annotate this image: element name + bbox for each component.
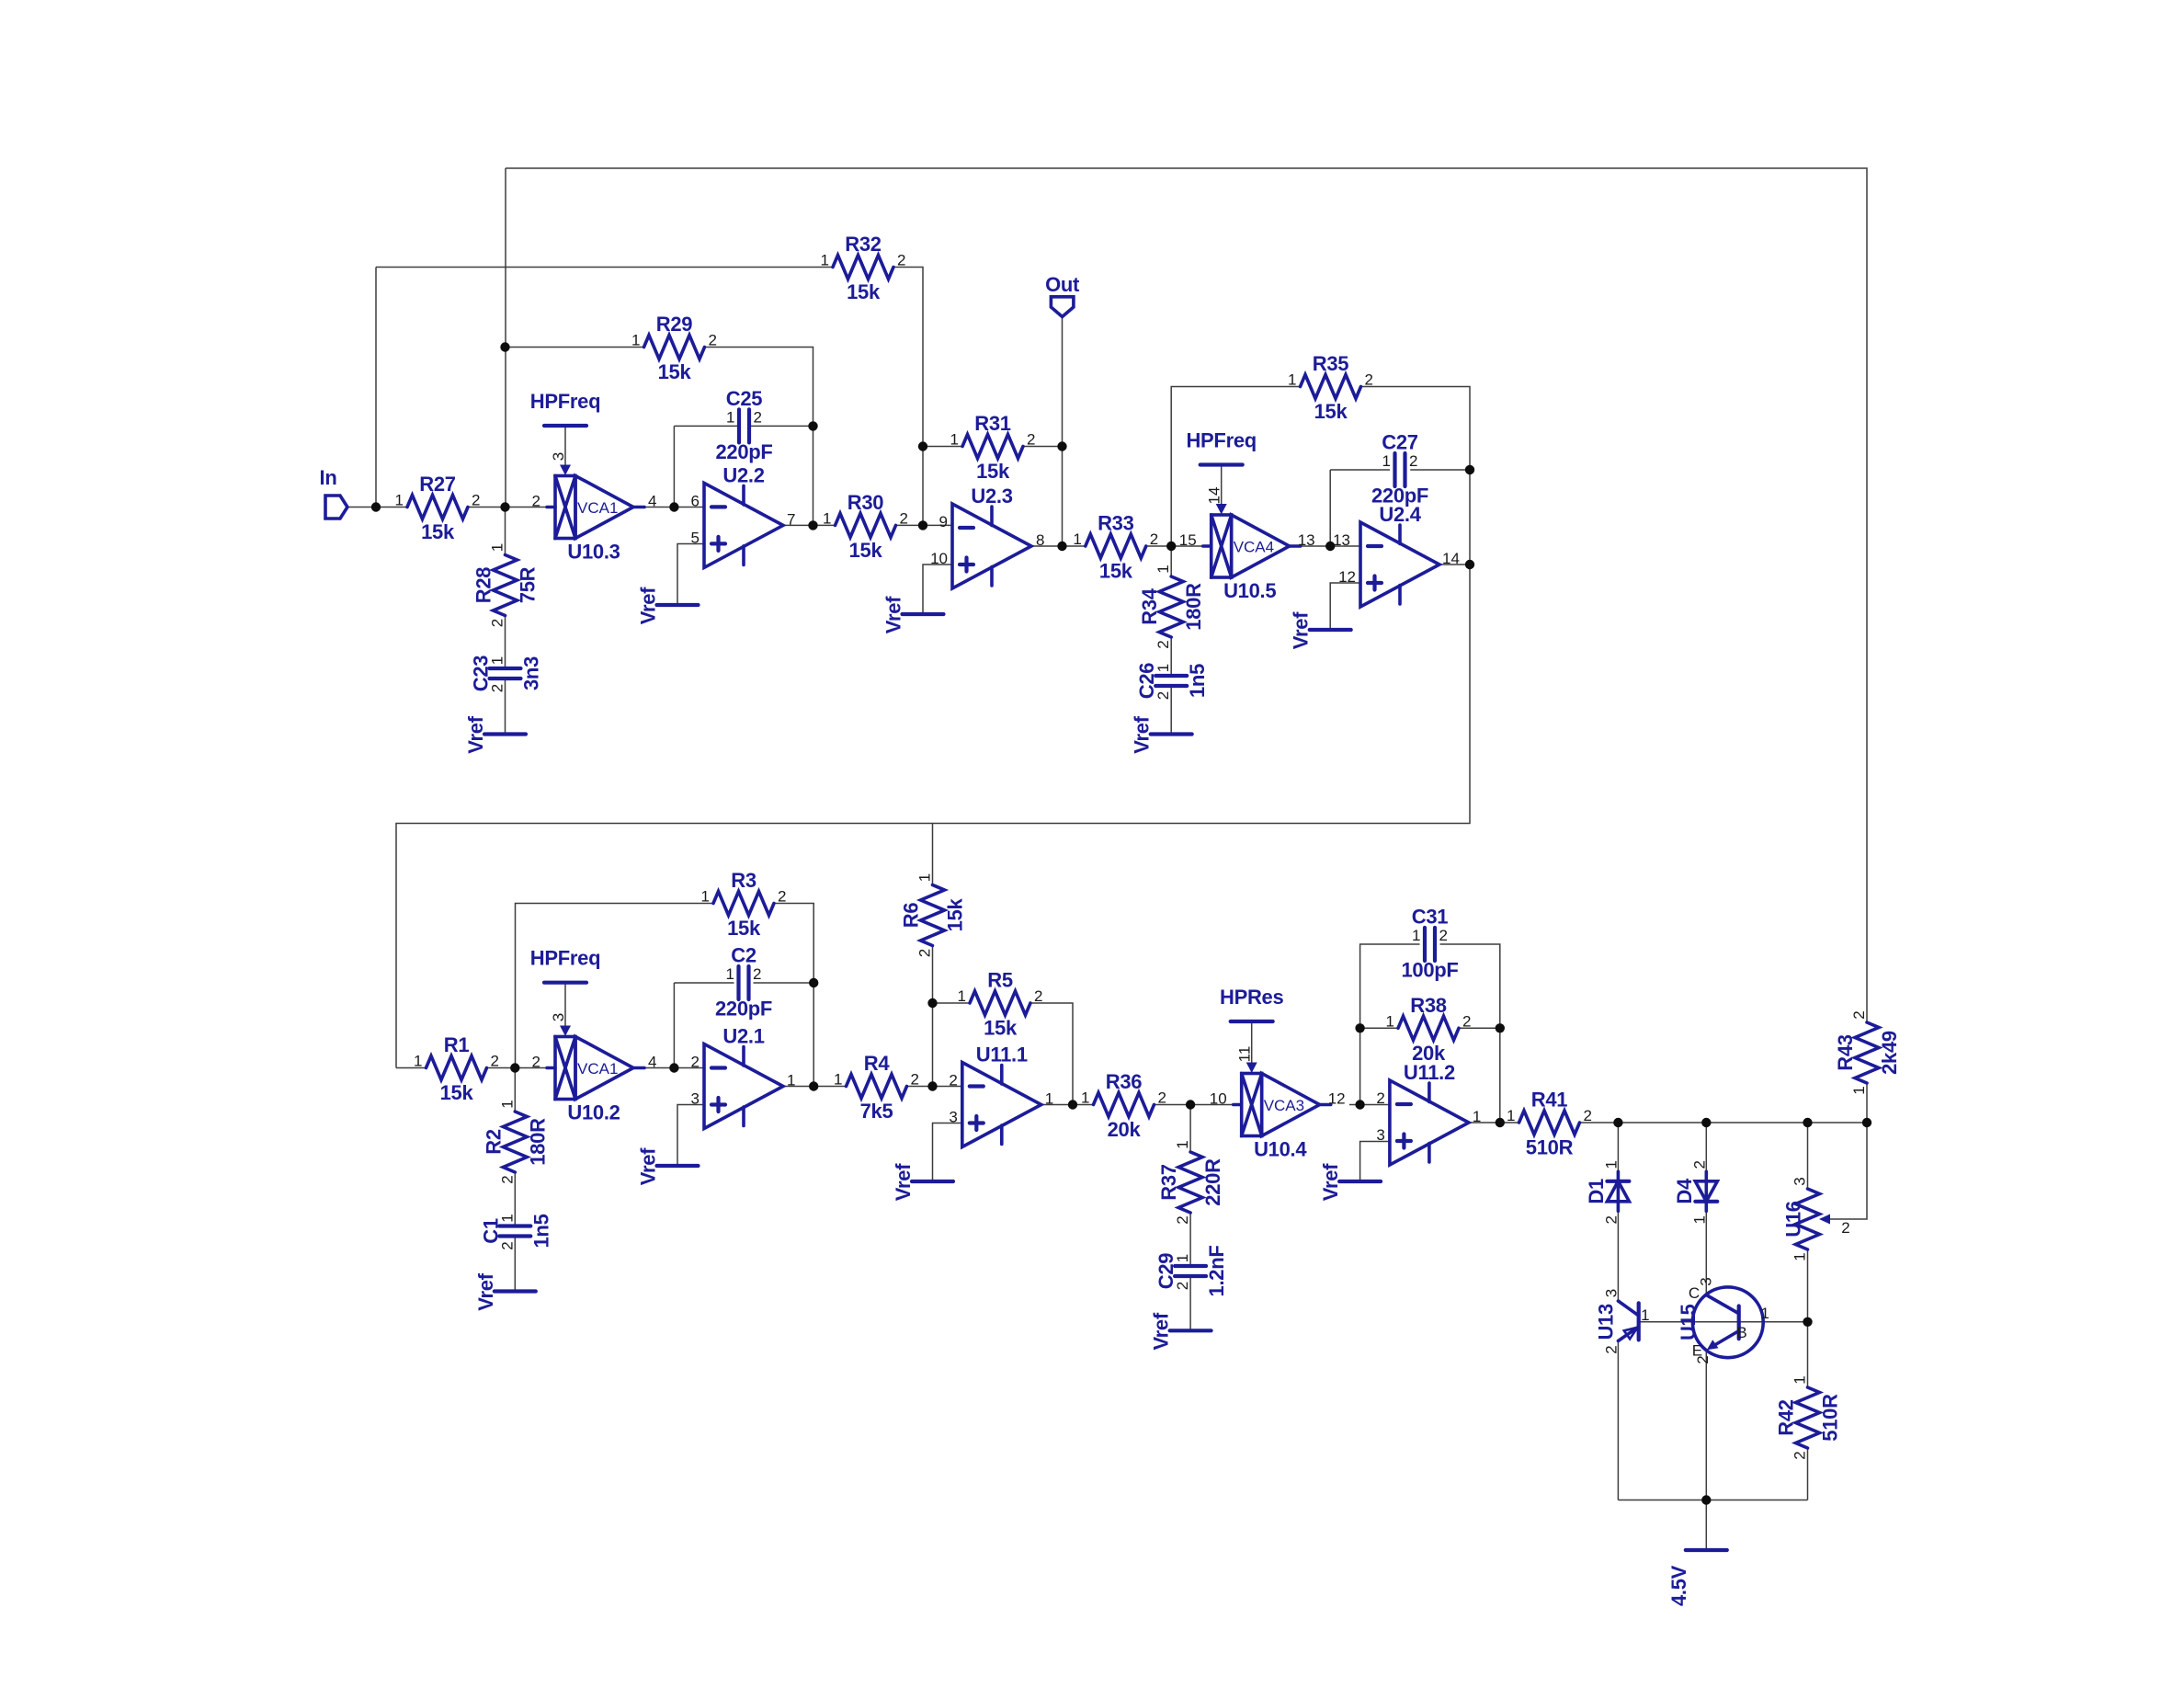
svg-text:2: 2 (1376, 1089, 1384, 1107)
op-amp U11.1 (949, 1044, 1053, 1147)
svg-text:7: 7 (787, 510, 795, 528)
wire vertical from In junction up to R32 row (375, 268, 377, 508)
svg-text:2: 2 (489, 619, 506, 627)
Vref power symbol (892, 1163, 953, 1201)
svg-text:2: 2 (1439, 927, 1448, 944)
wire C1 to Vref (514, 1237, 516, 1292)
wire C25 row (674, 425, 739, 427)
svg-text:R35: R35 (1313, 352, 1349, 375)
wire R34 column below VCA4 input junction (1170, 546, 1172, 576)
wire C26 to Vref (1170, 686, 1172, 735)
junction (1014.5,1181.5) (927, 1081, 937, 1090)
svg-text:1: 1 (1073, 530, 1081, 548)
svg-text:HPFreq: HPFreq (530, 947, 600, 970)
svg-text:1: 1 (1155, 664, 1172, 672)
svg-text:1: 1 (823, 509, 831, 527)
wire VCA3 out node up to R38 and C31 (1360, 944, 1420, 1105)
svg-text:180R: 180R (1182, 583, 1205, 631)
op-amp U2.3 (930, 485, 1044, 588)
svg-text:2: 2 (489, 684, 506, 692)
svg-text:15k: 15k (421, 520, 455, 543)
svg-text:Vref: Vref (1150, 1312, 1173, 1350)
svg-text:2: 2 (1365, 371, 1373, 389)
wire R6 column from upper rail down to R5 node and U11.1 pin2 node (932, 824, 934, 885)
svg-text:R29: R29 (656, 313, 693, 336)
svg-text:Vref: Vref (1131, 715, 1154, 753)
svg-text:VCA3: VCA3 (1264, 1097, 1304, 1114)
wire R31 row (923, 446, 962, 448)
svg-text:180R: 180R (526, 1118, 549, 1166)
capacitor C27 220pF (1371, 431, 1428, 508)
svg-text:15: 15 (1179, 531, 1197, 549)
svg-text:B: B (1736, 1324, 1746, 1341)
svg-text:U2.4: U2.4 (1379, 503, 1421, 526)
wire VCA1 out to U2.2 pin6 (644, 507, 704, 508)
svg-text:1.2nF: 1.2nF (1205, 1246, 1228, 1297)
resistor R28 75R (472, 543, 540, 627)
svg-text:1: 1 (395, 492, 404, 509)
svg-text:2k49: 2k49 (1878, 1031, 1901, 1075)
resistor R34 180R (1138, 565, 1205, 648)
svg-text:VCA1: VCA1 (577, 499, 618, 517)
svg-text:U16: U16 (1782, 1201, 1805, 1237)
svg-text:R34: R34 (1138, 587, 1161, 625)
svg-text:2: 2 (1409, 452, 1417, 470)
svg-text:C2: C2 (731, 944, 756, 967)
control input HPRes -> U10.4 (1220, 986, 1283, 1073)
junction (409,551.5) (371, 502, 381, 511)
svg-text:3n3: 3n3 (520, 656, 543, 690)
junction (884.5,571.4) (808, 520, 817, 530)
wire R1 input row (396, 1067, 427, 1069)
svg-text:2: 2 (1602, 1345, 1620, 1353)
junction (549.5,377.5) (500, 342, 509, 351)
junction (1014.5,1091) (927, 998, 937, 1008)
svg-text:2: 2 (1850, 1010, 1868, 1019)
wire Out connector down through R31-2 to U2.3 out (1062, 317, 1064, 547)
junction (885.2,1181.5) (809, 1081, 818, 1090)
svg-text:3: 3 (1602, 1289, 1620, 1297)
svg-text:1: 1 (1081, 1089, 1089, 1107)
svg-text:1: 1 (1155, 565, 1172, 573)
svg-text:1: 1 (1760, 1305, 1769, 1322)
junction (1155.5,485.5) (1057, 441, 1066, 451)
svg-text:1: 1 (958, 987, 966, 1005)
svg-text:2: 2 (1158, 1089, 1166, 1107)
svg-text:1: 1 (1507, 1107, 1515, 1124)
wire R35 left leg (VCA4 input node up) (1171, 387, 1300, 547)
wire U13 emitter down to bottom rail (1617, 1341, 1619, 1500)
svg-text:2: 2 (472, 492, 480, 509)
wire R43 column: body bottom to R41 row junction, down to U16 wiper (1866, 1083, 1868, 1123)
svg-text:2: 2 (1792, 1451, 1809, 1459)
svg-text:510R: 510R (1526, 1136, 1574, 1159)
svg-text:U10.2: U10.2 (567, 1101, 620, 1124)
junction (1631.8,1221) (1496, 1118, 1505, 1127)
svg-text:2: 2 (1694, 1355, 1712, 1363)
junction (1155.5,594) (1057, 542, 1066, 551)
svg-text:3: 3 (1698, 1277, 1715, 1285)
svg-text:7k5: 7k5 (860, 1100, 893, 1123)
svg-text:R1: R1 (444, 1033, 470, 1056)
svg-text:2: 2 (1174, 1282, 1191, 1290)
resistor R5 15k (958, 969, 1043, 1040)
svg-text:1: 1 (631, 332, 640, 349)
svg-text:C: C (1689, 1284, 1700, 1302)
wire In row (347, 507, 407, 508)
junction (1004,485.5) (918, 441, 927, 451)
wire vertical x=550 from top rail down to In row (505, 168, 506, 508)
svg-text:1: 1 (498, 1100, 516, 1108)
svg-text:1: 1 (1690, 1215, 1708, 1224)
svg-text:R2: R2 (482, 1129, 505, 1155)
wire U2.1 pin3 to Vref (677, 1105, 704, 1167)
wire R3 feedback row (516, 904, 714, 1068)
svg-text:Vref: Vref (882, 596, 905, 633)
svg-text:75R: 75R (517, 566, 540, 603)
resistor R1 15k (414, 1033, 499, 1104)
resistor R33 15k (1073, 512, 1158, 583)
svg-text:VCA1: VCA1 (577, 1060, 618, 1078)
wire R38 row (1360, 1027, 1398, 1029)
wire C2 row (674, 982, 734, 984)
svg-text:1: 1 (489, 543, 506, 552)
wire VCA4 out to U2.4 pin13 (1301, 545, 1361, 547)
svg-text:U2.2: U2.2 (722, 463, 764, 486)
svg-text:R28: R28 (472, 567, 495, 604)
svg-text:U13: U13 (1595, 1304, 1618, 1340)
svg-text:HPFreq: HPFreq (530, 390, 600, 413)
wire R2 column below R1 junction (514, 1068, 516, 1112)
svg-text:R38: R38 (1410, 994, 1447, 1017)
svg-text:1: 1 (1792, 1375, 1809, 1384)
svg-text:R31: R31 (974, 412, 1011, 435)
svg-text:1n5: 1n5 (529, 1214, 552, 1248)
svg-text:3: 3 (691, 1090, 700, 1108)
svg-text:11: 11 (1236, 1046, 1254, 1063)
svg-text:R43: R43 (1834, 1034, 1857, 1071)
svg-text:2: 2 (1150, 530, 1158, 548)
junction (884.5,463.4) (808, 421, 817, 430)
connector In (325, 496, 347, 519)
svg-text:R5: R5 (987, 969, 1013, 992)
svg-text:R27: R27 (419, 473, 456, 496)
svg-text:10: 10 (930, 550, 948, 567)
op-amp U2.4 (1333, 503, 1460, 607)
wire VCA3 out to U11.2 pin2 (1349, 1104, 1390, 1106)
wire U11.1 out row / R36 (1041, 1104, 1094, 1106)
wire D4 column (1705, 1123, 1707, 1171)
svg-text:2: 2 (1155, 691, 1172, 700)
svg-text:1: 1 (1174, 1254, 1191, 1262)
resistor R6 15k (900, 873, 967, 957)
VCA U10.2 (VCA1) (532, 1037, 657, 1124)
svg-text:1: 1 (1174, 1140, 1191, 1148)
wire U2.4 pin12 to Vref (1330, 583, 1360, 630)
svg-text:1: 1 (489, 656, 506, 665)
wire U11.2 out row / R41 (1469, 1122, 1519, 1123)
svg-text:Vref: Vref (1290, 611, 1313, 649)
svg-text:2: 2 (753, 965, 761, 983)
svg-text:1: 1 (726, 965, 734, 983)
svg-text:10: 10 (1210, 1090, 1227, 1108)
svg-text:2: 2 (778, 888, 786, 906)
svg-text:R4: R4 (864, 1052, 891, 1075)
wire U16 column (1807, 1123, 1809, 1189)
svg-text:R30: R30 (847, 491, 884, 514)
svg-text:U11.2: U11.2 (1404, 1061, 1455, 1084)
junction (1295.1,1201.5) (1186, 1100, 1195, 1109)
svg-text:1: 1 (787, 1072, 795, 1089)
svg-text:2: 2 (1027, 431, 1035, 449)
Vref power symbol (464, 715, 526, 753)
svg-text:2: 2 (911, 1071, 919, 1089)
wire U13 base to U15 base (1639, 1321, 1739, 1323)
svg-text:Vref: Vref (1319, 1163, 1342, 1201)
svg-text:4.5V: 4.5V (1667, 1565, 1690, 1606)
resistor R42 510R (1775, 1375, 1842, 1459)
resistor R27 15k (395, 473, 481, 543)
svg-text:13: 13 (1333, 531, 1350, 549)
svg-text:VCA4: VCA4 (1234, 539, 1274, 556)
svg-text:1: 1 (916, 873, 934, 882)
op-amp U2.2 (691, 463, 796, 567)
wire D1 column (1617, 1123, 1619, 1171)
junction (1856.3,1221) (1701, 1118, 1711, 1127)
svg-text:2: 2 (1155, 640, 1172, 648)
svg-text:100pF: 100pF (1401, 959, 1458, 982)
capacitor C26 1n5 (1135, 663, 1209, 701)
svg-text:14: 14 (1442, 550, 1460, 567)
svg-text:5: 5 (691, 529, 700, 546)
junction (1631.8,1118.3) (1496, 1023, 1505, 1032)
junction (733.4,1161.5) (669, 1063, 678, 1072)
svg-text:8: 8 (1036, 531, 1044, 549)
svg-text:15k: 15k (944, 898, 967, 932)
svg-text:1: 1 (726, 408, 734, 426)
svg-text:2: 2 (754, 408, 762, 426)
capacitor C1 1n5 (479, 1214, 552, 1249)
svg-text:R6: R6 (900, 903, 923, 929)
resistor R36 20k (1081, 1070, 1166, 1141)
wire bottom rail (1618, 1500, 1807, 1501)
svg-text:Vref: Vref (892, 1163, 915, 1201)
resistor R38 20k (1386, 994, 1472, 1065)
junction (1856.3,1631.5) (1701, 1495, 1711, 1504)
wire C2 left elbow down to U2.1 pin2 junction (673, 983, 675, 1068)
svg-text:2: 2 (1462, 1012, 1471, 1030)
svg-text:1: 1 (950, 431, 959, 449)
junction (1274.2,594) (1166, 542, 1176, 551)
wire C27 row (1330, 469, 1390, 471)
svg-text:15k: 15k (658, 360, 692, 383)
wire C27 node down to U2.4 out then down-left to bottom section (1469, 470, 1471, 565)
svg-text:15k: 15k (1314, 400, 1348, 423)
wire R42 column (1807, 1322, 1809, 1387)
svg-text:R37: R37 (1157, 1164, 1180, 1201)
control input HPFreq -> U10.3 (530, 390, 600, 475)
wire R35 right leg down to C27 node (1361, 387, 1471, 471)
svg-text:2: 2 (916, 949, 934, 957)
junction (1599,614) (1465, 560, 1474, 569)
transistor U15 (NPN in circle) (1677, 1277, 1769, 1363)
junction (1760.4,1221) (1613, 1118, 1622, 1127)
junction (2031,1221) (1862, 1118, 1871, 1127)
wire U2.4 out (1439, 564, 1470, 565)
resistor R2 180R (482, 1100, 549, 1183)
junction (1479.6,1201.5) (1355, 1100, 1364, 1109)
VCA U10.3 (VCA1) (532, 476, 657, 564)
transistor U13 (tempco) (1595, 1289, 1650, 1354)
svg-text:2: 2 (498, 1241, 516, 1249)
wire U11.2 pin3 to Vref (1360, 1142, 1390, 1182)
svg-text:Vref: Vref (637, 1147, 660, 1185)
svg-text:12: 12 (1338, 568, 1356, 586)
wire R28 column below In junction (505, 508, 506, 555)
svg-text:13: 13 (1298, 531, 1315, 549)
svg-text:6: 6 (691, 492, 700, 509)
svg-text:4: 4 (648, 1054, 656, 1071)
Vref power symbol (882, 596, 944, 633)
junction (1447.2,594) (1325, 542, 1335, 551)
wire R32 feedback row (376, 267, 833, 268)
svg-text:1: 1 (1412, 927, 1420, 944)
svg-text:2: 2 (532, 1054, 540, 1071)
wire U11.1 pin3 to Vref (933, 1123, 962, 1182)
svg-text:9: 9 (939, 513, 948, 530)
svg-text:U10.3: U10.3 (567, 541, 620, 564)
svg-text:C25: C25 (726, 387, 763, 410)
svg-text:Vref: Vref (464, 715, 487, 753)
capacitor C31 100pF (1401, 906, 1458, 982)
wire R37 column below R36-2 junction (1189, 1105, 1191, 1153)
svg-text:20k: 20k (1108, 1118, 1142, 1141)
svg-text:2: 2 (949, 1072, 957, 1089)
svg-text:1: 1 (834, 1071, 842, 1089)
wire C25/R29 node down to U2.2 output (813, 426, 814, 525)
svg-text:R3: R3 (731, 869, 756, 892)
resistor R29 15k (631, 313, 717, 383)
svg-text:Vref: Vref (474, 1272, 497, 1310)
svg-text:D1: D1 (1585, 1179, 1608, 1204)
svg-text:HPRes: HPRes (1220, 986, 1283, 1009)
resistor R35 15k (1288, 352, 1373, 423)
wire U2.3 out row / R33 (1032, 545, 1086, 547)
svg-text:2: 2 (1602, 1215, 1620, 1224)
wire R41-2 row to R43 column (1580, 1122, 1868, 1123)
svg-text:15k: 15k (440, 1081, 474, 1104)
svg-text:Vref: Vref (637, 587, 660, 624)
wire U2.3 pin10 to Vref (923, 565, 952, 614)
svg-text:1: 1 (498, 1214, 516, 1222)
wire 4.5V stub (1705, 1500, 1707, 1551)
svg-text:510R: 510R (1819, 1394, 1842, 1442)
wire U15 emitter down to bottom rail (1705, 1350, 1707, 1500)
junction (1599,511) (1465, 465, 1474, 474)
svg-text:2: 2 (498, 1175, 516, 1183)
svg-text:1: 1 (1641, 1306, 1649, 1324)
Vref power symbol (637, 587, 699, 624)
svg-text:3: 3 (550, 1013, 567, 1021)
svg-text:U2.1: U2.1 (722, 1025, 764, 1048)
junction (560.3,1161.5) (510, 1063, 519, 1072)
connector Out (1051, 297, 1074, 317)
control input HPFreq -> U10.2 (530, 947, 600, 1036)
svg-text:1: 1 (1602, 1160, 1620, 1169)
svg-text:1: 1 (821, 252, 829, 269)
svg-text:In: In (320, 466, 337, 489)
wire U2.2 out row / R30 (783, 524, 836, 526)
wire top feedback rail from In node area to R43 (right) (506, 168, 1867, 1022)
diode D1 (1585, 1160, 1630, 1224)
svg-text:1: 1 (414, 1053, 422, 1070)
capacitor C2 220pF (715, 944, 772, 1021)
svg-text:15k: 15k (976, 460, 1010, 483)
svg-text:1: 1 (1792, 1252, 1809, 1260)
svg-text:HPFreq: HPFreq (1186, 429, 1256, 452)
wire U15 base to R42 column junction (1739, 1321, 1808, 1323)
svg-text:15k: 15k (1099, 560, 1133, 583)
svg-text:220pF: 220pF (715, 998, 772, 1021)
junction (885.2,1069) (809, 978, 818, 987)
wire C23 to Vref (505, 679, 506, 735)
control input HPFreq -> U10.5 (1186, 429, 1256, 515)
svg-text:1n5: 1n5 (1186, 664, 1209, 698)
diode D4 (1673, 1160, 1718, 1224)
op-amp U2.1 (691, 1025, 796, 1129)
wire VCA1(U10.2) out to U2.1 pin2 (644, 1067, 704, 1069)
Vref power symbol (1290, 611, 1351, 649)
Vref power symbol (1319, 1163, 1381, 1201)
junction (1966.5,1437.8) (1803, 1317, 1812, 1327)
svg-text:R33: R33 (1098, 512, 1134, 535)
svg-text:1: 1 (1850, 1086, 1868, 1094)
svg-text:4: 4 (648, 493, 656, 510)
power symbol 4.5V (1667, 1550, 1727, 1606)
svg-text:15k: 15k (984, 1017, 1018, 1040)
svg-text:2: 2 (532, 493, 540, 510)
junction (733.4,551.5) (669, 502, 678, 511)
svg-text:3: 3 (550, 452, 567, 461)
resistor R4 7k5 (834, 1052, 919, 1123)
svg-text:Out: Out (1045, 273, 1080, 296)
svg-text:3: 3 (1792, 1177, 1809, 1185)
wire R32 right leg down to R31 node then U2.3 pin9 (922, 447, 924, 526)
svg-text:220pF: 220pF (715, 440, 772, 463)
resistor R43 2k49 (1834, 1010, 1901, 1094)
svg-text:U10.5: U10.5 (1223, 579, 1276, 602)
svg-text:U11.1: U11.1 (976, 1044, 1028, 1066)
svg-text:2: 2 (1174, 1215, 1191, 1224)
VCA U10.4 (VCA3) (1210, 1074, 1346, 1161)
svg-text:3: 3 (949, 1109, 957, 1126)
svg-text:2: 2 (1690, 1160, 1708, 1169)
svg-text:C27: C27 (1382, 431, 1418, 454)
svg-text:R42: R42 (1775, 1399, 1798, 1436)
svg-text:2: 2 (709, 332, 717, 349)
svg-text:14: 14 (1206, 487, 1223, 505)
VCA U10.5 (VCA4) (1179, 515, 1315, 602)
wire C27 left elbow down to VCA4 out junction (1329, 470, 1331, 546)
resistor R3 15k (701, 869, 787, 940)
junction (549.5,551.5) (500, 502, 509, 511)
wire U2.1 out row / R4 (783, 1086, 847, 1088)
resistor R37 220R (1157, 1140, 1224, 1224)
svg-text:R36: R36 (1106, 1070, 1143, 1093)
Vref power symbol (637, 1147, 699, 1185)
svg-text:15k: 15k (849, 539, 883, 562)
capacitor C29 1.2nF (1155, 1246, 1228, 1297)
